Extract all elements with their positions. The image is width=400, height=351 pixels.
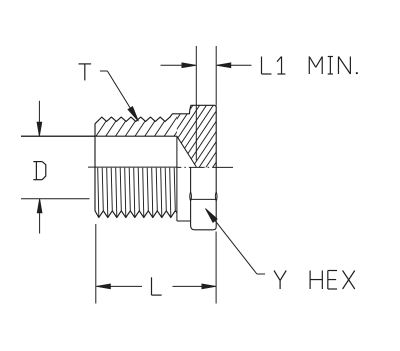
body lower outline with thread xyxy=(95,167,177,217)
hex chamfer line on flat xyxy=(191,198,217,200)
L1 right arrow xyxy=(217,63,252,68)
hex right edge lower xyxy=(213,167,217,229)
lower thread flanks xyxy=(98,168,176,217)
hex chamfer arcs on corners xyxy=(191,192,217,201)
label L xyxy=(152,277,162,295)
L left arrow xyxy=(96,284,142,289)
section hatching thread band xyxy=(96,113,190,137)
label D xyxy=(33,162,45,180)
dimension D bottom arrow xyxy=(37,199,42,234)
step to hex (lower) xyxy=(177,220,191,222)
L1 right extension line xyxy=(215,46,217,106)
section hatching hex head xyxy=(128,100,264,172)
left end face edge xyxy=(94,136,96,167)
label T xyxy=(79,64,92,81)
dimension D top extension line xyxy=(21,135,95,137)
T leader line xyxy=(100,71,138,121)
lower thread top line xyxy=(88,166,177,168)
label L1 MIN. xyxy=(262,57,358,75)
label Y HEX xyxy=(274,271,355,290)
body upper outline with external thread crest xyxy=(95,105,216,167)
internal chamfer cone xyxy=(177,136,196,167)
centerline xyxy=(177,166,233,168)
L right extension line xyxy=(215,232,217,304)
dimension D top arrow xyxy=(37,101,42,136)
L1 left arrow xyxy=(161,63,196,68)
L right arrow xyxy=(173,284,216,289)
dimension D bottom extension line xyxy=(21,198,90,200)
bore line xyxy=(21,135,177,137)
L1 left extension line xyxy=(195,46,197,161)
Y HEX leader line xyxy=(206,209,266,275)
thread end face xyxy=(176,136,178,221)
hex bottom edge xyxy=(195,229,213,231)
L left extension line xyxy=(95,224,97,304)
hex lower-left corner line xyxy=(190,167,195,229)
